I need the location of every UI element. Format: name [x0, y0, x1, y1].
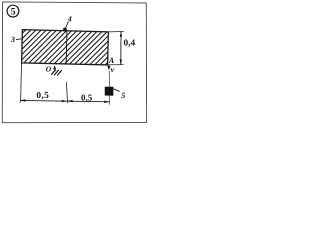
svg-text:0,5: 0,5 — [36, 91, 49, 101]
arrow mid pointing left — [67, 100, 72, 102]
leader line from particle to 5 — [114, 89, 120, 92]
origin hatch slashes — [51, 70, 56, 75]
plate center divider line — [65, 31, 68, 64]
leader line from dot to 4 — [66, 22, 69, 28]
witness line below particle — [109, 96, 111, 105]
arrowhead up — [120, 31, 122, 36]
bottom dimension middle witness line — [66, 82, 67, 103]
arrow mid pointing right — [62, 100, 67, 102]
hatched plate (field region) — [0, 27, 148, 67]
svg-text:5: 5 — [121, 91, 125, 100]
arrow left end — [20, 99, 25, 101]
svg-text:0,5: 0,5 — [81, 92, 93, 102]
svg-text:4: 4 — [67, 14, 72, 23]
figure number circle 5 — [7, 5, 19, 17]
particle square 5 — [105, 87, 114, 96]
witness line from arrow to particle — [108, 71, 111, 87]
svg-text:0,4: 0,4 — [124, 38, 136, 48]
svg-text:A: A — [108, 56, 115, 65]
arrow right end — [104, 101, 109, 103]
svg-text:5: 5 — [11, 7, 16, 18]
dimension 0,4 line — [120, 32, 122, 65]
svg-text:v: v — [111, 65, 115, 74]
bottom dimension left witness line — [20, 63, 23, 103]
arrowhead down — [120, 60, 122, 65]
bottom dimension line — [20, 100, 109, 101]
svg-text:3: 3 — [10, 35, 15, 44]
dimension 0,4 extension line top — [108, 31, 123, 33]
velocity arrowhead — [107, 66, 110, 70]
point 4 dot on top edge — [63, 28, 67, 32]
leader line from 3 to plate edge — [16, 38, 22, 41]
plate outline — [22, 30, 109, 65]
svg-text:O: O — [46, 65, 52, 74]
velocity arrow v — [108, 64, 110, 67]
figure border frame — [2, 2, 146, 123]
dimension 0,4 extension line bottom — [108, 64, 124, 66]
origin up arrow — [54, 66, 56, 71]
